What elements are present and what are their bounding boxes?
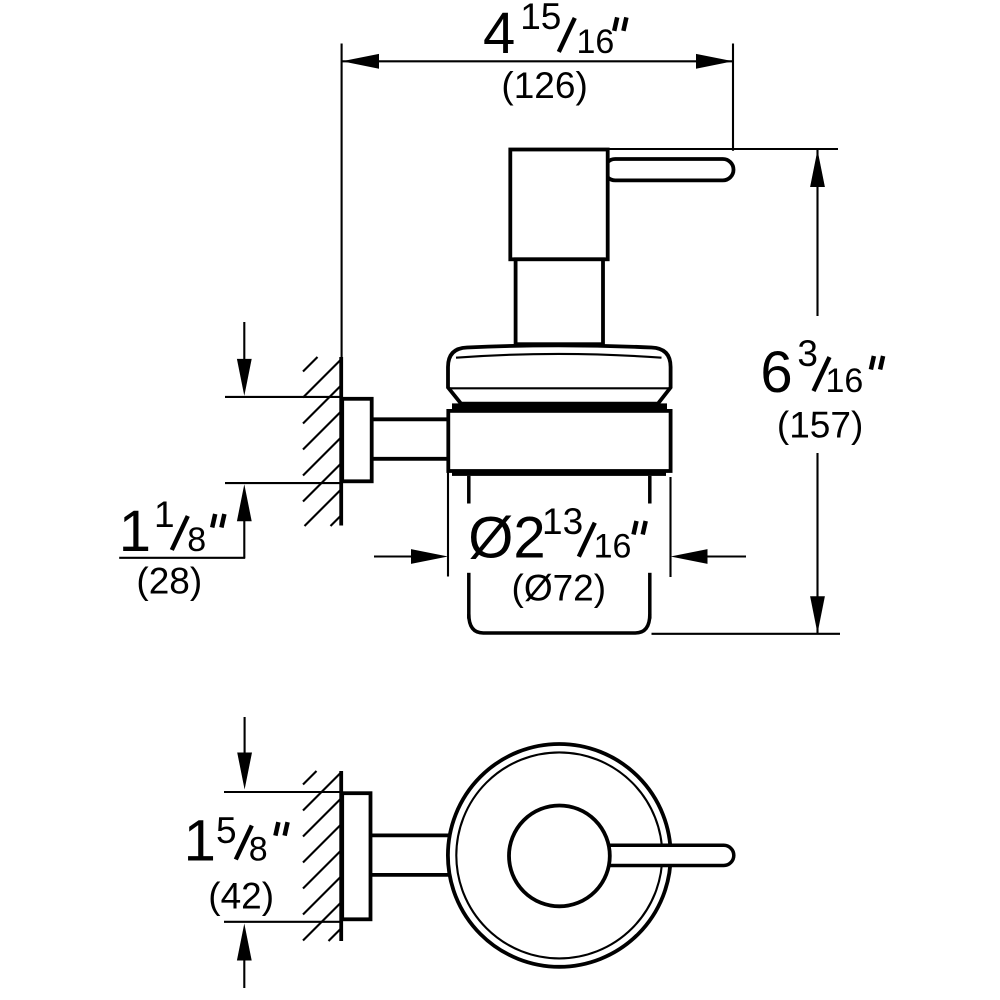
svg-text:8: 8 (249, 830, 268, 868)
svg-text:8: 8 (187, 521, 206, 559)
svg-text:16: 16 (577, 23, 615, 61)
svg-text:(28): (28) (136, 561, 202, 602)
svg-text:1: 1 (154, 494, 175, 535)
svg-text:4: 4 (483, 1, 515, 66)
svg-text:(157): (157) (777, 405, 863, 446)
svg-text:1: 1 (184, 808, 216, 873)
svg-text:15: 15 (520, 0, 561, 37)
svg-text:16: 16 (826, 362, 864, 400)
svg-text:13: 13 (542, 501, 583, 542)
svg-text:(126): (126) (501, 65, 587, 106)
svg-text:Ø2: Ø2 (468, 506, 545, 571)
svg-text:3: 3 (797, 333, 818, 374)
svg-text:1: 1 (119, 499, 151, 564)
svg-text:(Ø72): (Ø72) (512, 568, 607, 609)
svg-text:(42): (42) (208, 876, 274, 917)
svg-text:6: 6 (760, 340, 792, 405)
svg-text:5: 5 (216, 810, 237, 851)
svg-text:16: 16 (594, 528, 632, 566)
